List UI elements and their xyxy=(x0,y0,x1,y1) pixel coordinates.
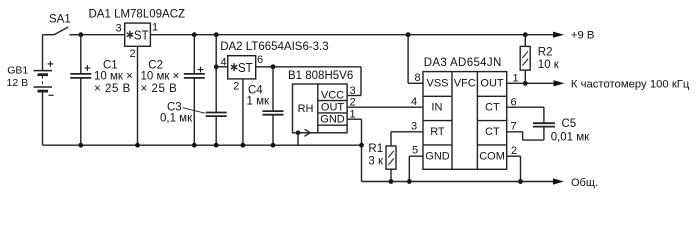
voltage regulator DA1 xyxy=(125,23,151,46)
svg-text:10 мк ×: 10 мк × xyxy=(94,71,133,83)
arrow common xyxy=(553,178,564,184)
capacitor C1 xyxy=(70,35,91,146)
node junction bottom of DA2 pin 2 xyxy=(241,143,246,148)
svg-text:× 25 В: × 25 В xyxy=(141,83,178,95)
svg-text:10 к: 10 к xyxy=(538,59,560,71)
svg-text:VCC: VCC xyxy=(321,90,344,102)
node junction top of C3 branch xyxy=(214,32,219,37)
svg-text:2: 2 xyxy=(233,81,239,93)
capacitor C3 xyxy=(206,113,227,117)
svg-text:6: 6 xyxy=(257,54,263,66)
svg-text:1: 1 xyxy=(513,72,519,84)
node junction top of C1 xyxy=(78,32,83,37)
svg-text:Общ.: Общ. xyxy=(571,177,598,189)
capacitor C2 xyxy=(184,35,205,146)
svg-text:CT: CT xyxy=(485,126,500,138)
svg-text:3: 3 xyxy=(116,22,122,34)
svg-text:VSS: VSS xyxy=(427,77,449,89)
node junction top of C2 xyxy=(192,32,197,37)
node junction DA2 input tap xyxy=(214,64,219,69)
svg-text:DA1 LM78L09ACZ: DA1 LM78L09ACZ xyxy=(89,8,186,20)
arrow to frequency meter xyxy=(554,80,565,86)
resistor R2 xyxy=(520,35,530,84)
svg-text:CT: CT xyxy=(485,101,500,113)
wire bottom right common rail xyxy=(362,181,555,183)
svg-text:OUT: OUT xyxy=(480,77,504,89)
svg-text:+9 В: +9 В xyxy=(571,29,595,41)
svg-text:B1 808H5V6: B1 808H5V6 xyxy=(288,70,353,82)
wire DA3 CT pin 7 to C5 bottom xyxy=(507,127,544,141)
wire B1 OUT to DA3 IN xyxy=(347,106,423,108)
svg-text:VFC: VFC xyxy=(454,77,476,89)
svg-text:R2: R2 xyxy=(538,47,553,59)
svg-text:COM: COM xyxy=(479,150,505,162)
svg-text:10 мк ×: 10 мк × xyxy=(141,71,180,83)
svg-text:ST: ST xyxy=(238,60,253,75)
svg-text:К частотомеру 100 кГц: К частотомеру 100 кГц xyxy=(571,78,690,90)
label DA2 ST xyxy=(220,41,328,75)
wire DA3 GND to common rail xyxy=(409,156,423,181)
label C2 10mk 25V xyxy=(141,60,180,96)
wire DA1 pin 2 to bottom rail xyxy=(137,46,139,145)
wire DA2 pin 6 output to B1 VCC riser xyxy=(256,67,361,96)
wire top rail: switch to DA1 pin 3 xyxy=(81,34,125,36)
svg-text:DA3 AD654JN: DA3 AD654JN xyxy=(424,57,502,69)
label C5 0.01mk xyxy=(551,118,590,143)
svg-text:C3: C3 xyxy=(167,101,182,113)
svg-text:2: 2 xyxy=(511,145,517,157)
svg-text:R1: R1 xyxy=(368,143,383,155)
node junction R2 bottom xyxy=(523,81,528,86)
label B1 808H5V6 xyxy=(288,70,353,125)
svg-text:1: 1 xyxy=(152,21,158,33)
label C3 0.1mk with leader xyxy=(160,101,205,124)
svg-text:GB1: GB1 xyxy=(7,65,28,77)
svg-text:12 В: 12 В xyxy=(7,77,29,89)
wire bottom left rail xyxy=(43,144,362,146)
svg-text:0,1 мк: 0,1 мк xyxy=(160,113,193,125)
svg-text:RH: RH xyxy=(298,103,314,115)
label SA1 xyxy=(49,13,71,25)
node junction bottom of C3 xyxy=(214,143,219,148)
wire DA3 COM to common rail xyxy=(507,156,521,181)
svg-text:GND: GND xyxy=(320,113,345,125)
wire DA3 VSS riser from +9V rail xyxy=(408,35,423,84)
capacitor C5 xyxy=(533,123,555,126)
svg-text:2: 2 xyxy=(130,48,136,60)
node junction bottom of C1 xyxy=(78,143,83,148)
label DA3 AD654JN xyxy=(424,57,505,162)
svg-text:OUT: OUT xyxy=(321,101,345,113)
node junction bottom of C2 xyxy=(192,143,197,148)
label R1 3k xyxy=(368,143,384,168)
node junction left rail meets GND drop xyxy=(359,143,364,148)
svg-text:SA1: SA1 xyxy=(49,13,71,25)
svg-text:DA2 LT6654AIS6-3.3: DA2 LT6654AIS6-3.3 xyxy=(220,41,328,53)
node junction DA3 COM drop xyxy=(518,179,523,184)
svg-text:IN: IN xyxy=(431,101,442,113)
battery GB1 xyxy=(34,35,54,146)
node junction DA3 VSS riser xyxy=(406,32,411,37)
wire B1 GND to common xyxy=(347,119,361,181)
wire DA3 CT pin 6 to C5 top xyxy=(507,107,544,123)
svg-text:RT: RT xyxy=(430,126,445,138)
svg-text:3: 3 xyxy=(411,120,417,132)
svg-text:× 25 В: × 25 В xyxy=(94,83,131,95)
label GB1 12 B xyxy=(7,65,29,89)
svg-text:1 мк: 1 мк xyxy=(247,96,270,108)
svg-text:0,01 мк: 0,01 мк xyxy=(551,131,590,143)
arrow +9V xyxy=(553,32,564,38)
svg-text:8: 8 xyxy=(415,72,421,84)
label C1 10mk 25V xyxy=(94,60,133,96)
wire DA2 pin 2 to bottom rail xyxy=(242,79,244,145)
VFC converter DA3 xyxy=(423,72,507,170)
wire B1 VCC stub xyxy=(347,95,361,97)
node junction top of C4 xyxy=(271,64,276,69)
node junction bottom of C4 xyxy=(271,143,276,148)
node junction bottom of DA1 pin 2 xyxy=(135,143,140,148)
svg-text:4: 4 xyxy=(411,96,417,108)
svg-text:ST: ST xyxy=(134,28,149,43)
node junction DA3 GND drop xyxy=(407,179,412,184)
svg-text:GND: GND xyxy=(425,150,450,162)
label C4 1mk xyxy=(247,85,270,108)
wire DA3 OUT to frequency meter xyxy=(507,82,555,84)
resistor R1 xyxy=(386,146,396,182)
svg-text:3 к: 3 к xyxy=(368,156,384,168)
node junction R1 bottom xyxy=(389,179,394,184)
capacitor C4 xyxy=(263,67,284,145)
svg-text:5: 5 xyxy=(412,145,418,157)
svg-text:7: 7 xyxy=(511,121,517,133)
switch SA1 xyxy=(43,27,81,35)
label R2 10k xyxy=(538,47,560,71)
wire DA2 pin 4 input xyxy=(216,66,228,68)
node junction top of R2 xyxy=(523,32,528,37)
wire C3 riser from top rail to bottom rail xyxy=(215,35,217,146)
svg-text:C5: C5 xyxy=(562,118,577,130)
label DA1 ST xyxy=(89,8,186,42)
wire top rail: DA1 pin 1 to +9V arrow xyxy=(150,34,554,36)
wire DA3 RT to R1 xyxy=(391,132,423,146)
voltage reference DA2 xyxy=(228,56,256,79)
humidity sensor B1 xyxy=(293,84,348,133)
sensing element arrow of B1 xyxy=(296,129,311,145)
svg-text:4: 4 xyxy=(221,56,227,68)
